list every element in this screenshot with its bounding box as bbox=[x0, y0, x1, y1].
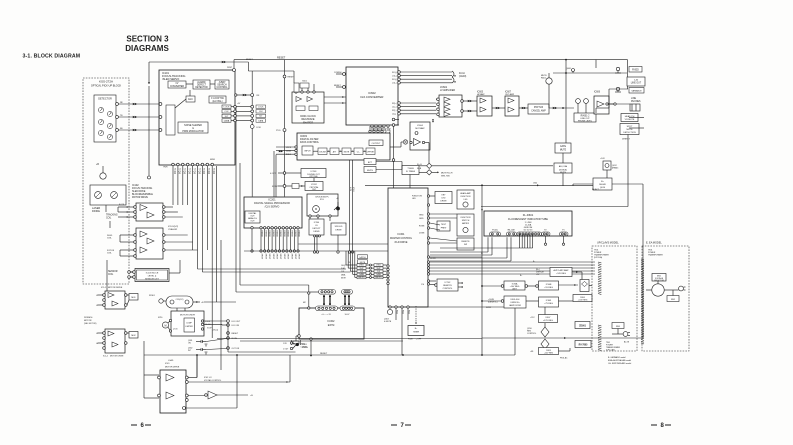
svg-text:ZD901: ZD901 bbox=[579, 325, 587, 327]
svg-text:DE-EM: DE-EM bbox=[319, 152, 326, 154]
svg-text:F2: F2 bbox=[544, 230, 546, 232]
svg-text:LATCH: LATCH bbox=[359, 256, 366, 259]
svg-text:MOTOR DRIVE: MOTOR DRIVE bbox=[108, 287, 123, 289]
svg-text:TFDR: TFDR bbox=[197, 168, 199, 174]
svg-text:TFDR: TFDR bbox=[183, 168, 185, 174]
svg-text:COIL: COIL bbox=[108, 274, 114, 276]
svg-text:LED: LED bbox=[412, 198, 416, 200]
svg-text:D/A CONVERTER: D/A CONVERTER bbox=[361, 95, 384, 99]
svg-text:SW LED: SW LED bbox=[335, 226, 343, 228]
svg-text:SENSOR DET: SENSOR DET bbox=[145, 279, 160, 281]
svg-text:SEARCH: SEARCH bbox=[217, 84, 227, 87]
svg-text:/FLD DRIVE: /FLD DRIVE bbox=[395, 241, 408, 244]
svg-text:TFDR: TFDR bbox=[202, 168, 204, 174]
svg-text:CONNS: CONNS bbox=[301, 346, 309, 348]
svg-text:XRST: XRST bbox=[283, 254, 285, 260]
svg-text:(E-F BAL): (E-F BAL) bbox=[212, 100, 222, 103]
svg-text:IC302: IC302 bbox=[328, 319, 335, 323]
svg-text:DRIVE: DRIVE bbox=[440, 201, 447, 203]
svg-text:WORM &: WORM & bbox=[84, 317, 93, 319]
svg-text:TFDR: TFDR bbox=[207, 168, 209, 174]
svg-text:MOTOR DRIVE: MOTOR DRIVE bbox=[110, 356, 124, 358]
svg-text:CHDO: CHDO bbox=[359, 265, 365, 267]
svg-text:REMOTE: REMOTE bbox=[443, 285, 452, 287]
svg-text:LAMP FILTER: LAMP FILTER bbox=[509, 304, 522, 307]
svg-text:/P.U.: /P.U. bbox=[320, 199, 325, 201]
svg-text:DIRECT: DIRECT bbox=[622, 139, 631, 141]
svg-text:FUNCTION: FUNCTION bbox=[461, 217, 471, 219]
svg-text:IC90B: IC90B bbox=[546, 284, 552, 286]
svg-text:TFDR: TFDR bbox=[173, 168, 175, 174]
svg-text:FOCUS-TRACKING: FOCUS-TRACKING bbox=[132, 187, 152, 190]
svg-text:G1 G2 G3: G1 G2 G3 bbox=[524, 230, 533, 232]
svg-text:RV301: RV301 bbox=[149, 295, 155, 297]
svg-text:PREV: PREV bbox=[441, 228, 447, 230]
svg-text:+5.6V REG: +5.6V REG bbox=[578, 300, 588, 302]
svg-text:B+: B+ bbox=[520, 275, 522, 277]
svg-text:LINE OUT: LINE OUT bbox=[631, 83, 642, 85]
svg-text:MUTE R-CH: MUTE R-CH bbox=[441, 173, 453, 175]
svg-text:HP AMP: HP AMP bbox=[477, 93, 485, 96]
svg-text:+10V REG: +10V REG bbox=[556, 273, 566, 275]
svg-text:MMUTE: MMUTE bbox=[375, 277, 382, 279]
svg-text:PHONE LEVEL: PHONE LEVEL bbox=[578, 121, 593, 123]
svg-text:DETECT: DETECT bbox=[312, 228, 321, 230]
svg-text:CND: CND bbox=[533, 183, 538, 185]
svg-text:+B1: +B1 bbox=[530, 351, 533, 353]
svg-text:LED: LED bbox=[464, 199, 468, 201]
svg-text:CONTROL: CONTROL bbox=[443, 288, 454, 290]
svg-text:IC604: IC604 bbox=[417, 125, 424, 127]
svg-text:SRK, NW: SRK, NW bbox=[441, 175, 450, 177]
svg-text:COMP: COMP bbox=[186, 323, 192, 325]
svg-text:UP/CLAVS MODEL: UP/CLAVS MODEL bbox=[597, 242, 619, 245]
svg-text:B: GERMANY model: B: GERMANY model bbox=[608, 356, 626, 359]
svg-text:AGC: AGC bbox=[188, 98, 193, 101]
svg-text:(UP/CLAV): (UP/CLAV) bbox=[606, 349, 615, 352]
svg-text:LED: LED bbox=[442, 198, 446, 200]
svg-text:LINE: LINE bbox=[631, 98, 637, 100]
svg-text:XLAT: XLAT bbox=[376, 267, 380, 270]
svg-text:XRST: XRST bbox=[268, 254, 270, 260]
svg-text:DATA CONTROL: DATA CONTROL bbox=[300, 141, 320, 144]
svg-text:+12V: +12V bbox=[530, 317, 535, 319]
svg-text:DOM8: DOM8 bbox=[419, 233, 424, 235]
svg-text:POP NOI: POP NOI bbox=[534, 107, 544, 109]
svg-text:TRANSFORMER: TRANSFORMER bbox=[648, 254, 663, 257]
svg-text:INPUT: INPUT bbox=[304, 151, 311, 153]
svg-text:DATA: DATA bbox=[224, 119, 230, 122]
svg-text:LDO ON: LDO ON bbox=[232, 325, 240, 327]
svg-text:+B: +B bbox=[96, 164, 99, 166]
svg-text:LIMITER: LIMITER bbox=[185, 326, 193, 328]
svg-text:/CLV SERVO: /CLV SERVO bbox=[265, 206, 280, 209]
svg-text:LEVEL &: LEVEL & bbox=[148, 276, 157, 278]
svg-text:XLAT: XLAT bbox=[341, 267, 345, 270]
svg-text:OUTPUT: OUTPUT bbox=[372, 143, 381, 145]
svg-text:LOCK: LOCK bbox=[224, 107, 230, 109]
svg-text:DATA: DATA bbox=[258, 119, 264, 122]
svg-text:ATT: ATT bbox=[368, 161, 373, 164]
svg-text:XLAT: XLAT bbox=[359, 267, 363, 270]
svg-text:HEADLAMP: HEADLAMP bbox=[460, 192, 471, 195]
svg-text:FLD: FLD bbox=[408, 310, 410, 314]
svg-text:XRST: XRST bbox=[287, 254, 289, 260]
svg-text:SWITCH: SWITCH bbox=[462, 220, 470, 222]
svg-text:R2(+): R2(+) bbox=[392, 103, 397, 105]
svg-text:MUTE: MUTE bbox=[344, 152, 350, 154]
svg-text:CLK: CLK bbox=[224, 111, 229, 113]
svg-text:COIL: COIL bbox=[106, 218, 112, 220]
svg-text:CANCEL AMP: CANCEL AMP bbox=[531, 110, 546, 113]
svg-text:CEQO: CEQO bbox=[341, 265, 347, 267]
svg-text:C.L.: C.L. bbox=[357, 152, 361, 154]
svg-text:CONTROL: CONTROL bbox=[216, 87, 228, 89]
svg-text:I/V: I/V bbox=[176, 83, 179, 85]
svg-text:IC301: IC301 bbox=[398, 232, 405, 236]
svg-text:IC606: IC606 bbox=[594, 92, 601, 94]
svg-text:LO(-): LO(-) bbox=[392, 83, 397, 85]
svg-text:3-1. BLOCK DIAGRAM: 3-1. BLOCK DIAGRAM bbox=[23, 53, 81, 59]
svg-text:MASTER CONTROL: MASTER CONTROL bbox=[390, 237, 413, 240]
svg-text:MMUTE: MMUTE bbox=[358, 277, 365, 279]
svg-text:Q610: Q610 bbox=[600, 187, 606, 189]
svg-text:VOLTAG CONTROL: VOLTAG CONTROL bbox=[204, 379, 221, 382]
svg-text:+5V REG: +5V REG bbox=[544, 287, 553, 289]
svg-text:MUTE: MUTE bbox=[626, 129, 633, 131]
svg-text:ALARM/: ALARM/ bbox=[197, 81, 206, 84]
svg-text:MOTOR: MOTOR bbox=[84, 320, 92, 322]
svg-text:9M-10M: 9M-10M bbox=[508, 230, 515, 232]
svg-text:TFDR: TFDR bbox=[192, 168, 194, 174]
svg-text:RO(-): RO(-) bbox=[392, 79, 397, 81]
svg-text:IC203: IC203 bbox=[311, 171, 318, 173]
svg-text:F1: F1 bbox=[562, 230, 564, 232]
svg-text:XRST: XRST bbox=[261, 254, 263, 260]
svg-text:DELAY: DELAY bbox=[599, 183, 606, 186]
svg-text:IC101(1/2): IC101(1/2) bbox=[168, 226, 178, 228]
svg-text:DRIVE: DRIVE bbox=[313, 231, 320, 233]
svg-text:MOTOR DRIVE: MOTOR DRIVE bbox=[132, 197, 148, 199]
svg-text:BLOC/REVERSIBLE: BLOC/REVERSIBLE bbox=[132, 194, 153, 196]
svg-text:A301: A301 bbox=[301, 343, 305, 346]
svg-text:(UP/CLA): (UP/CLA) bbox=[594, 256, 603, 259]
svg-text:B+: B+ bbox=[533, 261, 535, 263]
svg-text:UNSW B+: UNSW B+ bbox=[510, 302, 520, 304]
svg-text:XRST: XRST bbox=[264, 254, 266, 260]
svg-text:FIXED: FIXED bbox=[632, 70, 639, 72]
svg-text:DRIVE: DRIVE bbox=[335, 230, 342, 232]
svg-text:FL: FL bbox=[481, 253, 483, 255]
svg-text:FL-D601: FL-D601 bbox=[523, 213, 534, 217]
svg-text:OFFSET: OFFSET bbox=[367, 152, 375, 154]
svg-text:FL-B: FL-B bbox=[417, 168, 422, 170]
svg-text:M: M bbox=[315, 208, 317, 211]
svg-text:GATE: GATE bbox=[560, 145, 566, 148]
svg-text:TFDR: TFDR bbox=[163, 167, 168, 169]
svg-text:CH: SWITZERLAND model: CH: SWITZERLAND model bbox=[608, 362, 632, 365]
svg-text:ADI, DAI: ADI, DAI bbox=[559, 165, 568, 168]
svg-text:IC204: IC204 bbox=[314, 222, 320, 224]
svg-text:MATRIX: MATRIX bbox=[462, 222, 470, 225]
svg-text:+14V REG: +14V REG bbox=[544, 353, 554, 355]
svg-text:DIODE: DIODE bbox=[92, 210, 100, 213]
svg-text:DIAGRAMS: DIAGRAMS bbox=[125, 44, 169, 53]
svg-text:GRID: GRID bbox=[419, 215, 424, 217]
svg-text:UNIT: UNIT bbox=[512, 288, 517, 290]
svg-text:CONVERTER: CONVERTER bbox=[170, 86, 184, 88]
svg-text:OUT ON: OUT ON bbox=[232, 348, 240, 350]
svg-text:±12V REG: ±12V REG bbox=[543, 320, 553, 322]
svg-text:4 OUT: 4 OUT bbox=[270, 173, 276, 175]
svg-text:E, EA MODEL: E, EA MODEL bbox=[646, 242, 662, 245]
svg-text:2TLD: 2TLD bbox=[276, 130, 281, 132]
svg-text:(HEAT): (HEAT) bbox=[612, 167, 619, 170]
svg-text:+14V: +14V bbox=[600, 158, 605, 160]
svg-text:TRACKING: TRACKING bbox=[106, 214, 118, 217]
svg-text:FLD: FLD bbox=[402, 310, 404, 314]
svg-text:DETECTION: DETECTION bbox=[623, 132, 636, 134]
svg-text:TFDR: TFDR bbox=[212, 168, 214, 174]
svg-text:C5D(1/2): C5D(1/2) bbox=[176, 299, 184, 301]
svg-text:IC903: IC903 bbox=[546, 300, 552, 302]
svg-text:RV-7805: RV-7805 bbox=[579, 344, 588, 346]
svg-text:SPDL: SPDL bbox=[158, 317, 163, 319]
svg-text:1 M: 1 M bbox=[421, 284, 424, 286]
svg-text:FL TRANS: FL TRANS bbox=[406, 170, 416, 173]
svg-text:DETECTOR: DETECTOR bbox=[195, 87, 208, 89]
svg-text:(CH03): (CH03) bbox=[459, 76, 467, 78]
svg-text:XRST: XRST bbox=[290, 254, 292, 260]
svg-text:& MUTE: & MUTE bbox=[384, 321, 392, 323]
svg-text:IC42 LO: IC42 LO bbox=[204, 377, 212, 379]
svg-text:MOTOR DRIVE: MOTOR DRIVE bbox=[180, 315, 196, 317]
svg-text:1 OUT: 1 OUT bbox=[283, 349, 289, 351]
svg-text:LOCK: LOCK bbox=[258, 107, 264, 109]
svg-text:SELECTOR: SELECTOR bbox=[654, 280, 664, 282]
svg-text:FUNCTION: FUNCTION bbox=[461, 196, 471, 198]
svg-text:SW5V: SW5V bbox=[486, 307, 492, 309]
svg-text:IC202: IC202 bbox=[311, 184, 318, 186]
svg-text:SECTION 3: SECTION 3 bbox=[126, 34, 169, 43]
svg-text:RESET: RESET bbox=[246, 59, 253, 61]
svg-text:CXA1082: CXA1082 bbox=[168, 228, 178, 231]
svg-text:VR MUTE: VR MUTE bbox=[625, 119, 635, 121]
svg-text:/SLED SERVO: /SLED SERVO bbox=[162, 77, 179, 81]
svg-text:IC1-1: IC1-1 bbox=[101, 287, 107, 289]
svg-text:XRST: XRST bbox=[294, 254, 296, 260]
svg-text:FLUORESCENT INDICATOR TUBE: FLUORESCENT INDICATOR TUBE bbox=[508, 218, 548, 221]
svg-text:+5V(+5): +5V(+5) bbox=[212, 330, 219, 332]
svg-text:SRDR: SRDR bbox=[210, 159, 216, 161]
svg-text:OPTICAL PICK-UP BLOCK: OPTICAL PICK-UP BLOCK bbox=[91, 85, 122, 88]
svg-text:L2(+): L2(+) bbox=[392, 106, 397, 108]
svg-text:SW: SW bbox=[464, 244, 467, 246]
svg-text:D902: D902 bbox=[671, 299, 675, 301]
svg-text:SLED DRIVE: SLED DRIVE bbox=[132, 191, 146, 193]
svg-text:AUTO APC AMP: AUTO APC AMP bbox=[554, 269, 570, 272]
svg-text:RESET: RESET bbox=[232, 333, 239, 335]
svg-text:TFDR: TFDR bbox=[178, 168, 180, 174]
svg-text:XRST: XRST bbox=[272, 254, 274, 260]
svg-text:E/EA: AUSTRALIAN model: E/EA: AUSTRALIAN model bbox=[608, 359, 632, 362]
svg-text:VCOF: VCOF bbox=[207, 328, 212, 330]
svg-text:AC IN: AC IN bbox=[624, 341, 630, 344]
svg-text:JC601: JC601 bbox=[440, 86, 448, 89]
svg-text:PLAY: PLAY bbox=[408, 338, 413, 341]
svg-text:IC201: IC201 bbox=[268, 198, 276, 202]
svg-text:MUT AMP: MUT AMP bbox=[415, 127, 425, 130]
svg-text:DETECTOR: DETECTOR bbox=[98, 98, 112, 101]
svg-text:XRST: XRST bbox=[298, 254, 300, 260]
svg-text:KSS-272A: KSS-272A bbox=[99, 80, 113, 84]
svg-text:TFDR: TFDR bbox=[188, 168, 190, 174]
svg-text:ROM8: ROM8 bbox=[419, 226, 424, 228]
svg-text:FOK: FOK bbox=[257, 127, 262, 129]
svg-text:IC1-2: IC1-2 bbox=[103, 356, 109, 358]
svg-text:KEY: KEY bbox=[441, 195, 446, 197]
svg-text:T300B: T300B bbox=[407, 168, 414, 170]
svg-text:R OUT: R OUT bbox=[272, 186, 279, 188]
svg-text:+0——+13: +0——+13 bbox=[321, 314, 330, 316]
svg-text:XRST: XRST bbox=[276, 254, 278, 260]
svg-text:IC102: IC102 bbox=[132, 184, 139, 187]
svg-text:SENSOR: SENSOR bbox=[108, 271, 118, 273]
svg-text:RESET: RESET bbox=[288, 77, 295, 79]
svg-text:R2(-): R2(-) bbox=[392, 110, 397, 112]
svg-text:OUT AMP: OUT AMP bbox=[505, 93, 515, 96]
svg-text:GRID: GRID bbox=[419, 218, 424, 220]
svg-text:MOTOR DRIVE: MOTOR DRIVE bbox=[165, 367, 180, 369]
svg-text:4.2M: 4.2M bbox=[349, 187, 351, 191]
svg-text:SHAPER: SHAPER bbox=[303, 122, 313, 125]
svg-text:RO(+): RO(+) bbox=[392, 72, 398, 74]
svg-text:Q608: Q608 bbox=[566, 68, 571, 70]
svg-text:FLD: FLD bbox=[396, 310, 398, 314]
svg-text:2RST: 2RST bbox=[227, 67, 233, 69]
svg-text:MUTE: MUTE bbox=[360, 262, 366, 264]
svg-text:OUT: OUT bbox=[250, 221, 255, 223]
svg-text:F.COIL: F.COIL bbox=[119, 204, 125, 206]
svg-text:10-07: 10-07 bbox=[345, 314, 350, 316]
svg-text:(SEL MOTOR): (SEL MOTOR) bbox=[84, 323, 97, 325]
svg-text:RESET: RESET bbox=[277, 57, 286, 60]
svg-text:PHONES: PHONES bbox=[631, 101, 641, 103]
svg-text:-10 OR: -10 OR bbox=[430, 258, 436, 260]
svg-text:OSC: OSC bbox=[312, 189, 317, 191]
svg-text:E²P.M: E²P.M bbox=[328, 324, 335, 327]
svg-text:XTLO: XTLO bbox=[352, 187, 354, 192]
svg-text:PWM MODULATOR: PWM MODULATOR bbox=[182, 130, 204, 133]
svg-text:CONTROL: CONTROL bbox=[527, 333, 536, 335]
svg-text:FIL(G): FIL(G) bbox=[492, 230, 498, 232]
svg-text:VARIABLE: VARIABLE bbox=[631, 90, 642, 93]
svg-text:REMOTE: REMOTE bbox=[461, 241, 470, 243]
svg-text:M: M bbox=[165, 324, 167, 327]
svg-text:F901 AC: F901 AC bbox=[560, 357, 568, 360]
svg-text:D901-904: D901-904 bbox=[511, 299, 521, 301]
svg-text:DEJECT: DEJECT bbox=[592, 189, 600, 191]
svg-text:F LOOP SW: F LOOP SW bbox=[211, 98, 224, 100]
svg-text:L2(-): L2(-) bbox=[392, 114, 396, 116]
svg-text:XRST: XRST bbox=[279, 254, 281, 260]
svg-text:OPTICAL: OPTICAL bbox=[309, 175, 319, 178]
svg-text:LOAD: LOAD bbox=[168, 359, 174, 362]
svg-text:(UNSW B+): (UNSW B+) bbox=[488, 302, 498, 304]
svg-text:MUTE: MUTE bbox=[367, 170, 374, 172]
svg-text:TIMER: TIMER bbox=[413, 331, 420, 333]
svg-text:CHDO: CHDO bbox=[376, 265, 382, 267]
svg-text:D905: D905 bbox=[616, 326, 620, 328]
svg-text:IC103 SLICE: IC103 SLICE bbox=[146, 273, 159, 275]
svg-text:MUTE: MUTE bbox=[560, 150, 567, 152]
svg-text:LV AMPLIFIER: LV AMPLIFIER bbox=[440, 89, 455, 92]
svg-text:LO(+): LO(+) bbox=[392, 75, 397, 77]
svg-text:TEST: TEST bbox=[441, 224, 447, 226]
svg-text:+7V REG: +7V REG bbox=[544, 303, 553, 305]
svg-text:R-CH: R-CH bbox=[459, 73, 465, 75]
svg-text:IC702: IC702 bbox=[445, 282, 452, 284]
svg-text:LDO OUT: LDO OUT bbox=[232, 321, 242, 323]
